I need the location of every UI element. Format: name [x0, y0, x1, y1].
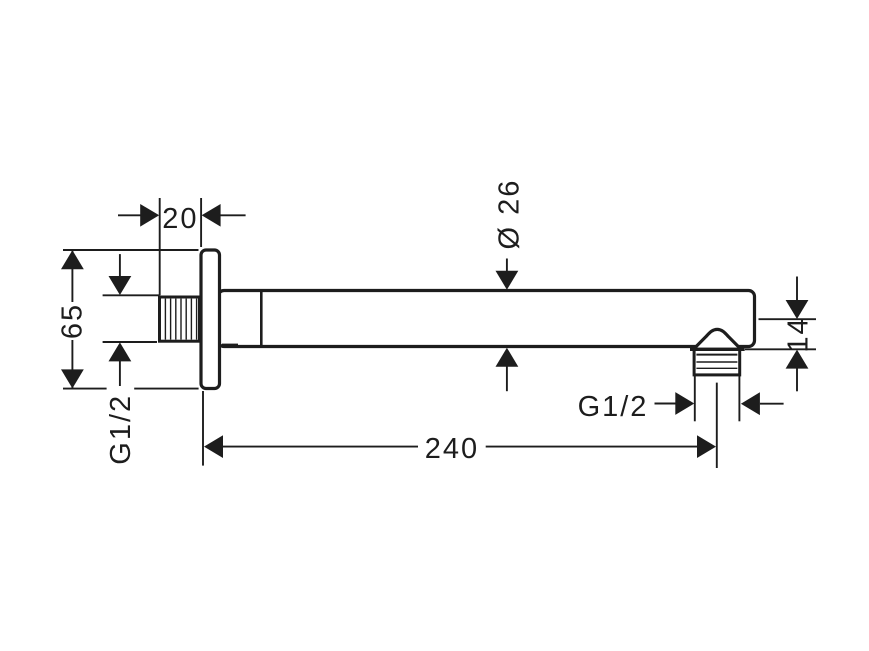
- step detail near flange: [222, 344, 238, 346]
- dimension diameter 26: [506, 259, 508, 392]
- outlet extension lines: [695, 376, 740, 468]
- svg-text:20: 20: [162, 203, 198, 235]
- arm tube body: [218, 291, 755, 347]
- svg-text:240: 240: [425, 433, 479, 465]
- dimension 14: [745, 277, 816, 392]
- dimension 20: [118, 198, 246, 295]
- svg-text:G1/2: G1/2: [105, 394, 137, 465]
- dimension 65: [63, 250, 199, 389]
- svg-text:14: 14: [783, 316, 815, 352]
- dimension 240: [203, 391, 698, 466]
- outlet label G1/2 right: [655, 403, 784, 405]
- thread label G1/2 left: [103, 254, 160, 386]
- svg-text:G1/2: G1/2: [578, 391, 649, 423]
- outlet thread G1/2: [690, 349, 745, 375]
- joint line in tube: [260, 292, 263, 345]
- svg-text:65: 65: [57, 303, 89, 339]
- outlet dome: [691, 329, 743, 348]
- wall-side thread G1/2: [160, 297, 200, 341]
- wall flange escutcheon: [201, 250, 220, 389]
- svg-text:Ø 26: Ø 26: [494, 179, 526, 250]
